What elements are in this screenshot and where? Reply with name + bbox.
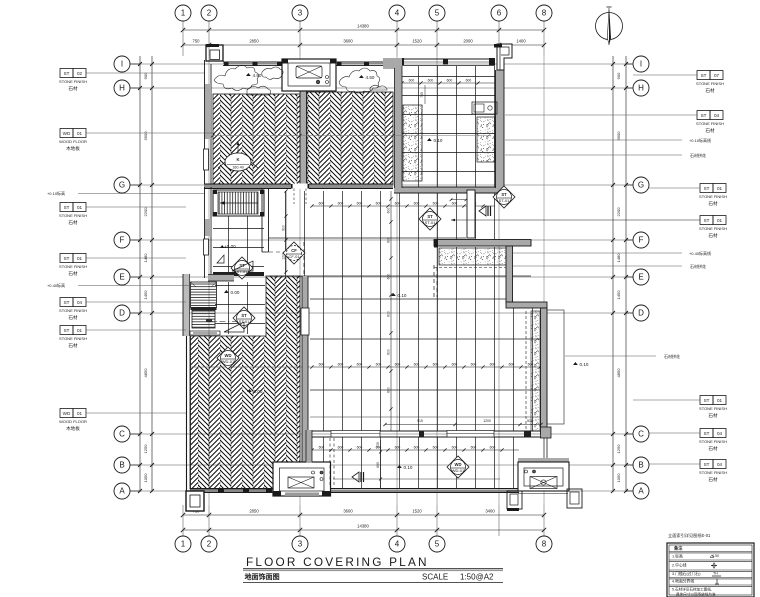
svg-text:FLOOR COVERING PLAN: FLOOR COVERING PLAN bbox=[246, 555, 429, 569]
svg-text:600: 600 bbox=[452, 446, 458, 450]
svg-text:1450: 1450 bbox=[143, 290, 148, 300]
svg-text:01: 01 bbox=[717, 398, 723, 403]
svg-text:ST: ST bbox=[704, 462, 710, 467]
floor field balcony south planks bbox=[310, 437, 519, 489]
svg-text:+0.40标高线: +0.40标高线 bbox=[689, 250, 711, 256]
svg-text:STONE FINISH: STONE FINISH bbox=[699, 406, 727, 411]
svg-text:600: 600 bbox=[387, 387, 391, 393]
svg-text:K: K bbox=[236, 157, 239, 162]
herringbone floor living room bbox=[190, 276, 300, 489]
svg-text:备注: 备注 bbox=[674, 545, 683, 552]
right dimension ladder bbox=[611, 56, 628, 493]
svg-text:0.10: 0.10 bbox=[434, 138, 443, 143]
svg-text:600: 600 bbox=[387, 208, 391, 214]
svg-text:750: 750 bbox=[420, 92, 424, 98]
svg-text:01: 01 bbox=[77, 411, 83, 416]
grid bubble I right bbox=[626, 56, 649, 72]
svg-text:600: 600 bbox=[471, 363, 477, 367]
svg-text:600: 600 bbox=[319, 363, 325, 367]
svg-text:石材拼花: 石材拼花 bbox=[664, 353, 680, 359]
svg-text:STONE FINISH: STONE FINISH bbox=[59, 336, 87, 341]
tag diamond corridor bbox=[283, 242, 305, 264]
column top-right hook bbox=[497, 44, 512, 70]
living east wall bbox=[302, 276, 308, 462]
svg-text:5: 5 bbox=[435, 9, 440, 18]
dim row kitchen bbox=[402, 82, 495, 84]
grid bubble F left bbox=[114, 232, 140, 248]
svg-text:石材: 石材 bbox=[68, 219, 78, 226]
west exterior wall lower bbox=[187, 336, 191, 491]
svg-text:600: 600 bbox=[338, 446, 344, 450]
svg-text:0.10: 0.10 bbox=[398, 293, 407, 298]
svg-text:600: 600 bbox=[509, 363, 515, 367]
label stone D bbox=[60, 254, 73, 263]
east stipple strip bbox=[531, 311, 540, 431]
svg-text:2000: 2000 bbox=[463, 39, 473, 44]
hall duct column bbox=[467, 190, 475, 238]
dim line balcony wall bbox=[383, 419, 542, 426]
west exterior wall upper bbox=[204, 60, 212, 187]
svg-text:G: G bbox=[638, 181, 644, 190]
svg-text:4850: 4850 bbox=[616, 368, 621, 378]
svg-text:STONE FINISH: STONE FINISH bbox=[59, 264, 87, 269]
svg-text:2: 2 bbox=[207, 9, 212, 18]
svg-text:600: 600 bbox=[376, 462, 380, 468]
svg-text:+0.40标高: +0.40标高 bbox=[47, 282, 65, 288]
svg-text:STONE FINISH: STONE FINISH bbox=[59, 79, 87, 84]
svg-text:01: 01 bbox=[77, 328, 83, 333]
svg-text:0.00: 0.00 bbox=[231, 290, 240, 295]
svg-text:600: 600 bbox=[414, 202, 420, 206]
bottom dimension lines bbox=[181, 509, 546, 533]
svg-text:STONE FINISH: STONE FINISH bbox=[699, 194, 727, 199]
svg-text:ST: ST bbox=[427, 214, 433, 219]
svg-text:01: 01 bbox=[77, 256, 83, 261]
svg-text:600: 600 bbox=[452, 202, 458, 206]
svg-text:1: 1 bbox=[181, 9, 186, 18]
svg-text:+0.10标高线: +0.10标高线 bbox=[689, 137, 711, 143]
svg-text:160.40: 160.40 bbox=[232, 166, 244, 170]
top window wall west bbox=[223, 62, 282, 67]
grid bubble B right bbox=[626, 457, 649, 473]
svg-text:2: 2 bbox=[207, 540, 212, 549]
svg-text:CF-01: CF-01 bbox=[288, 254, 300, 259]
grid bubble H left bbox=[114, 80, 140, 96]
svg-text:石材: 石材 bbox=[68, 314, 78, 321]
svg-text:4.50: 4.50 bbox=[253, 73, 262, 78]
bedroom south wall bbox=[204, 184, 393, 205]
dim chain vertical hall bbox=[387, 191, 393, 431]
spot elevation hall low bbox=[573, 362, 578, 365]
svg-text:C: C bbox=[119, 430, 125, 439]
balcony vertical dim bbox=[380, 440, 382, 489]
svg-text:WD: WD bbox=[63, 411, 71, 416]
label stone C bbox=[60, 203, 73, 212]
svg-text:ST-01: ST-01 bbox=[425, 220, 436, 225]
planter cloud east bbox=[339, 68, 380, 93]
svg-text:ST-01: ST-01 bbox=[237, 269, 248, 274]
svg-text:WD-01: WD-01 bbox=[222, 359, 235, 364]
label wood G bbox=[60, 409, 73, 418]
kitchen appliance bbox=[472, 102, 497, 114]
structural grid lines horizontal bbox=[131, 64, 632, 491]
svg-text:3900: 3900 bbox=[616, 131, 621, 141]
svg-text:ST: ST bbox=[704, 186, 710, 191]
svg-text:900: 900 bbox=[282, 225, 286, 231]
svg-text:ST: ST bbox=[704, 398, 710, 403]
balcony structure southeast bbox=[507, 458, 582, 511]
label note R5 bbox=[513, 252, 682, 254]
svg-text:600: 600 bbox=[395, 363, 401, 367]
svg-text:8: 8 bbox=[542, 540, 547, 549]
svg-text:石材: 石材 bbox=[68, 270, 78, 277]
svg-text:木地板: 木地板 bbox=[66, 145, 80, 152]
dim chain foyer bbox=[282, 189, 288, 273]
east wall foot block bbox=[541, 427, 552, 438]
svg-text:2850: 2850 bbox=[249, 39, 259, 44]
window seat dashes bbox=[433, 265, 435, 297]
svg-text:H: H bbox=[119, 84, 125, 93]
svg-text:1050: 1050 bbox=[143, 473, 148, 483]
dim row balcony bbox=[312, 449, 519, 451]
herringbone floor bedroom 1 bbox=[213, 94, 300, 184]
svg-text:600: 600 bbox=[414, 446, 420, 450]
svg-text:B: B bbox=[119, 461, 124, 470]
tag diamond living bbox=[217, 347, 239, 369]
svg-text:WD: WD bbox=[225, 353, 232, 358]
north arrow symbol bbox=[596, 7, 623, 45]
svg-text:600: 600 bbox=[409, 79, 415, 83]
column top-left bbox=[206, 45, 223, 61]
svg-text:4.50: 4.50 bbox=[366, 75, 375, 80]
svg-text:±0.00: ±0.00 bbox=[224, 244, 236, 249]
grid bubble 5 top bbox=[429, 5, 445, 21]
svg-text:石材: 石材 bbox=[68, 85, 78, 92]
svg-text:3600: 3600 bbox=[343, 509, 353, 514]
svg-text:WD-01: WD-01 bbox=[452, 468, 465, 473]
living south window wall bbox=[190, 489, 310, 494]
svg-text:3400: 3400 bbox=[485, 509, 495, 514]
grid bubble 6 top bbox=[491, 5, 507, 21]
svg-text:600: 600 bbox=[466, 79, 472, 83]
label note R010 bbox=[505, 139, 682, 141]
svg-text:01: 01 bbox=[717, 218, 723, 223]
svg-text:1480: 1480 bbox=[143, 253, 148, 263]
staircase bbox=[213, 190, 264, 216]
svg-text:+0.10标高: +0.10标高 bbox=[47, 190, 65, 196]
floor field dining hall vertical planks bbox=[269, 191, 541, 431]
grid bubble D left bbox=[114, 305, 140, 321]
svg-text:2200: 2200 bbox=[143, 207, 148, 217]
spot elevation living bbox=[247, 389, 252, 392]
svg-text:04: 04 bbox=[77, 300, 83, 305]
column bottom-left bbox=[186, 491, 204, 511]
svg-text:1400: 1400 bbox=[516, 39, 526, 44]
svg-text:600: 600 bbox=[395, 446, 401, 450]
svg-text:B: B bbox=[638, 461, 643, 470]
svg-text:750: 750 bbox=[193, 39, 201, 44]
window seat stipple bbox=[439, 248, 506, 265]
balcony south wall bbox=[310, 489, 519, 493]
svg-text:600: 600 bbox=[376, 202, 382, 206]
top window wall kitchen bbox=[397, 58, 495, 66]
label stone R2 bbox=[697, 111, 710, 120]
svg-text:915: 915 bbox=[417, 419, 423, 423]
svg-text:ST: ST bbox=[64, 256, 70, 261]
laundry striped lower bbox=[192, 311, 215, 329]
top dimension lines bbox=[181, 24, 546, 48]
svg-text:600: 600 bbox=[319, 202, 325, 206]
svg-text:ST-01: ST-01 bbox=[499, 198, 510, 203]
floor hall tiles bbox=[215, 282, 265, 334]
kitchen west wall bbox=[395, 58, 403, 69]
leader east bbox=[451, 219, 700, 221]
label stone R3 bbox=[700, 184, 713, 193]
svg-text:14380: 14380 bbox=[357, 24, 369, 29]
balcony dashed lines bbox=[329, 438, 331, 487]
svg-text:石材: 石材 bbox=[705, 87, 715, 94]
svg-text:ST: ST bbox=[64, 328, 70, 333]
grid bubble 8 bottom bbox=[536, 536, 552, 552]
svg-text:01: 01 bbox=[77, 131, 83, 136]
svg-text:STONE FINISH: STONE FINISH bbox=[699, 226, 727, 231]
svg-text:CF: CF bbox=[291, 248, 297, 253]
svg-text:STONE FINISH: STONE FINISH bbox=[59, 213, 87, 218]
floor foyer tiles bbox=[213, 216, 264, 272]
media unit living bbox=[273, 462, 331, 496]
svg-text:A: A bbox=[119, 487, 125, 496]
label stone finish A bbox=[60, 69, 73, 78]
svg-text:07: 07 bbox=[714, 73, 720, 78]
svg-text:STONE FINISH: STONE FINISH bbox=[699, 439, 727, 444]
west wall foyer bbox=[204, 187, 212, 278]
top window wall middle bbox=[336, 62, 397, 67]
dim row upper hall bbox=[312, 205, 495, 207]
svg-text:STONE FINISH: STONE FINISH bbox=[59, 308, 87, 313]
svg-text:2850: 2850 bbox=[249, 509, 259, 514]
grid bubble 2 bottom bbox=[201, 536, 217, 552]
svg-text:1050: 1050 bbox=[616, 473, 621, 483]
tag diamond balcony bbox=[447, 456, 469, 478]
planter cloud west bbox=[214, 65, 259, 90]
svg-text:2200: 2200 bbox=[616, 207, 621, 217]
bay window unit bbox=[282, 59, 336, 91]
label note Rpin bbox=[505, 154, 682, 156]
svg-text:1250: 1250 bbox=[616, 444, 621, 454]
svg-text:WOOD FLOOR: WOOD FLOOR bbox=[59, 139, 87, 144]
svg-text:0.00: 0.00 bbox=[254, 389, 263, 394]
svg-text:230: 230 bbox=[376, 442, 380, 448]
svg-text:6: 6 bbox=[497, 9, 502, 18]
laundry door centerline bbox=[207, 321, 240, 323]
label stone R1 bbox=[697, 71, 710, 80]
svg-text:I: I bbox=[121, 60, 123, 69]
svg-text:I: I bbox=[640, 60, 642, 69]
svg-text:ST: ST bbox=[64, 300, 70, 305]
label stone F bbox=[60, 326, 73, 335]
svg-text:2.中心线: 2.中心线 bbox=[672, 563, 687, 568]
svg-text:600: 600 bbox=[490, 446, 496, 450]
svg-text:04: 04 bbox=[717, 462, 723, 467]
partition wall bedrooms bbox=[300, 91, 307, 187]
label stone R4 bbox=[700, 216, 713, 225]
herringbone floor bedroom 2 bbox=[307, 92, 393, 184]
foyer south wall bbox=[213, 272, 264, 276]
oval tag bedroom1 bbox=[225, 153, 251, 171]
svg-text:石材: 石材 bbox=[708, 200, 718, 207]
media unit jamb bbox=[306, 430, 312, 463]
svg-text:E: E bbox=[638, 273, 643, 282]
svg-text:ST: ST bbox=[701, 113, 707, 118]
svg-text:600: 600 bbox=[452, 363, 458, 367]
svg-text:ST: ST bbox=[241, 313, 247, 318]
grid bubble 4 bottom bbox=[389, 536, 405, 552]
svg-text:3900: 3900 bbox=[143, 131, 148, 141]
svg-text:STONE FINISH: STONE FINISH bbox=[699, 470, 727, 475]
dim row mid hall bbox=[312, 366, 541, 368]
svg-text:01: 01 bbox=[717, 186, 723, 191]
threshold arrow mid bbox=[352, 472, 359, 482]
grid bubble B left bbox=[114, 457, 140, 473]
svg-text:ST: ST bbox=[704, 431, 710, 436]
label stone E bbox=[60, 298, 73, 307]
grid bubble I left bbox=[114, 56, 140, 72]
svg-text:E: E bbox=[119, 273, 124, 282]
svg-text:H: H bbox=[638, 84, 644, 93]
svg-text:0.10: 0.10 bbox=[404, 465, 413, 470]
svg-text:600: 600 bbox=[357, 202, 363, 206]
legend table bbox=[667, 532, 754, 597]
svg-text:1250: 1250 bbox=[143, 444, 148, 454]
grid bubble E right bbox=[626, 269, 649, 285]
svg-text:600: 600 bbox=[387, 311, 391, 317]
svg-text:4: 4 bbox=[395, 9, 400, 18]
svg-text:石材拼花: 石材拼花 bbox=[690, 152, 706, 158]
svg-text:600: 600 bbox=[387, 274, 391, 280]
label stone R8 bbox=[700, 396, 713, 405]
spot elevation laundry hall bbox=[224, 290, 229, 293]
svg-text:01: 01 bbox=[77, 205, 83, 210]
grid bubble 8 top bbox=[536, 5, 552, 21]
grid bubble G right bbox=[626, 177, 649, 193]
svg-text:600: 600 bbox=[471, 446, 477, 450]
spot elevation balcony east bbox=[359, 75, 364, 78]
svg-text:石材: 石材 bbox=[708, 412, 718, 419]
svg-text:600: 600 bbox=[447, 79, 453, 83]
svg-text:F: F bbox=[120, 236, 125, 245]
svg-text:D: D bbox=[119, 309, 125, 318]
svg-text:ST: ST bbox=[701, 73, 707, 78]
grid bubble 1 bottom bbox=[175, 536, 191, 552]
svg-text:石材: 石材 bbox=[708, 445, 718, 452]
grid bubble 5 bottom bbox=[429, 536, 445, 552]
svg-text:4.地面分界线: 4.地面分界线 bbox=[672, 579, 694, 584]
svg-text:1:50@A2: 1:50@A2 bbox=[460, 573, 494, 582]
svg-text:600: 600 bbox=[387, 237, 391, 243]
svg-text:600: 600 bbox=[338, 363, 344, 367]
svg-text:F: F bbox=[639, 236, 644, 245]
svg-text:3: 3 bbox=[298, 9, 303, 18]
door dashes hall bbox=[303, 242, 305, 276]
bedroom dim line bbox=[213, 135, 490, 137]
grid bubble 2 top bbox=[201, 5, 217, 21]
door leaf foyer bbox=[232, 261, 253, 271]
grid bubble D right bbox=[626, 305, 649, 321]
svg-text:1520: 1520 bbox=[412, 509, 422, 514]
svg-text:4850: 4850 bbox=[143, 368, 148, 378]
svg-text:600: 600 bbox=[376, 363, 382, 367]
label wood floor B bbox=[60, 129, 73, 138]
grid bubble 1 top bbox=[175, 5, 191, 21]
svg-text:04: 04 bbox=[714, 113, 720, 118]
spot elevation kitchen bbox=[427, 138, 432, 141]
svg-text:WOOD FLOOR: WOOD FLOOR bbox=[59, 419, 87, 424]
grid bubble 3 top bbox=[292, 5, 308, 21]
svg-text:600: 600 bbox=[414, 363, 420, 367]
svg-text:14380: 14380 bbox=[357, 524, 369, 529]
svg-text:1200: 1200 bbox=[483, 419, 491, 423]
svg-text:1: 1 bbox=[181, 540, 186, 549]
svg-text:8: 8 bbox=[542, 9, 547, 18]
svg-text:5: 5 bbox=[435, 540, 440, 549]
svg-text:ST: ST bbox=[501, 192, 507, 197]
floor joint lines horizontal bbox=[269, 238, 541, 417]
grid bubble A left bbox=[114, 483, 140, 499]
door leaf hall bbox=[224, 322, 244, 332]
svg-text:石材: 石材 bbox=[708, 476, 718, 483]
svg-text:1480: 1480 bbox=[616, 253, 621, 263]
svg-text:具体尺寸以现场放线为准: 具体尺寸以现场放线为准 bbox=[676, 592, 716, 597]
svg-text:600: 600 bbox=[490, 363, 496, 367]
svg-text:STONE FINISH: STONE FINISH bbox=[696, 81, 724, 86]
svg-text:600: 600 bbox=[387, 349, 391, 355]
dim notch hall bbox=[451, 199, 466, 201]
svg-text:G: G bbox=[119, 181, 125, 190]
svg-text:600: 600 bbox=[357, 446, 363, 450]
svg-text:ST: ST bbox=[704, 218, 710, 223]
svg-text:D: D bbox=[638, 309, 644, 318]
svg-text:A: A bbox=[638, 487, 644, 496]
svg-text:ST: ST bbox=[64, 205, 70, 210]
grid bubble C right bbox=[626, 426, 649, 442]
svg-text:900: 900 bbox=[616, 72, 621, 79]
grid bubble E left bbox=[114, 269, 140, 285]
svg-text:0.10: 0.10 bbox=[580, 362, 589, 367]
label stone R10 bbox=[700, 460, 713, 469]
svg-text:600: 600 bbox=[395, 202, 401, 206]
kitchen counter east bbox=[477, 117, 495, 162]
svg-text:5.石材详见石材加工图纸,: 5.石材详见石材加工图纸, bbox=[672, 587, 712, 592]
svg-text:04: 04 bbox=[717, 431, 723, 436]
svg-text:3600: 3600 bbox=[343, 39, 353, 44]
grid bubble A right bbox=[626, 483, 649, 499]
svg-text:600: 600 bbox=[357, 363, 363, 367]
svg-text:STONE FINISH: STONE FINISH bbox=[696, 121, 724, 126]
svg-text:600: 600 bbox=[433, 446, 439, 450]
foyer east wall bbox=[261, 189, 263, 252]
threshold arrow hall bbox=[479, 206, 486, 216]
spot elevation hall bbox=[391, 293, 396, 296]
svg-text:TH: TH bbox=[713, 572, 718, 576]
tag diamond east wall bbox=[493, 186, 515, 208]
svg-text:600: 600 bbox=[433, 202, 439, 206]
svg-text:1450: 1450 bbox=[616, 290, 621, 300]
svg-text:石材: 石材 bbox=[705, 127, 715, 134]
label note R6 bbox=[513, 265, 682, 267]
svg-text:ST: ST bbox=[64, 71, 70, 76]
kitchen counter west bbox=[403, 105, 422, 181]
svg-text:立面索引详见图纸E-01: 立面索引详见图纸E-01 bbox=[668, 532, 711, 539]
